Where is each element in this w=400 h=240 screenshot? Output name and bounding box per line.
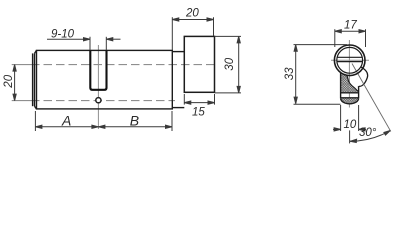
svg-text:9-10: 9-10	[51, 29, 75, 41]
svg-text:15: 15	[192, 107, 205, 119]
svg-text:A: A	[61, 112, 71, 128]
svg-text:17: 17	[344, 20, 357, 32]
svg-text:33: 33	[284, 67, 296, 80]
svg-text:20: 20	[3, 74, 15, 88]
svg-text:30: 30	[224, 57, 236, 70]
svg-text:B: B	[130, 112, 139, 128]
svg-text:20: 20	[185, 8, 199, 20]
svg-text:30°: 30°	[359, 127, 377, 139]
svg-text:10: 10	[344, 119, 357, 131]
